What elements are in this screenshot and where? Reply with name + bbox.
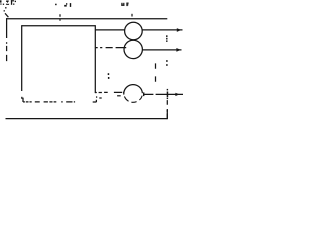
output wire 3	[143, 93, 183, 95]
colon dots x=108.5	[108, 73, 110, 79]
minus sign below wire	[117, 95, 121, 97]
label u1 (top centre)	[55, 3, 71, 7]
label ChF (top right)	[121, 3, 128, 7]
bottom bus line	[6, 118, 168, 120]
block box left edge	[21, 25, 23, 91]
mixer circle 1	[125, 22, 143, 40]
tick under label u1 crossing top line	[59, 14, 61, 20]
output wire 2	[142, 49, 181, 51]
dashed vertical x=155.5	[155, 63, 157, 81]
dotted vertical feedback line x=167	[166, 35, 168, 99]
mixer circle 3 dashed bottom arc	[124, 96, 142, 103]
wire dash-dot from box to mixer 2	[95, 47, 126, 49]
wire: left vertical dash-dot part	[6, 42, 8, 61]
block box top edge	[22, 25, 96, 27]
block box left lower dash	[21, 97, 23, 99]
block box bottom-right dashed corner	[93, 96, 102, 102]
leader dots from figure number to corner	[4, 7, 7, 11]
mixer circle 2	[124, 40, 142, 58]
wire dash-dot from box corner to mixer 3	[95, 91, 124, 93]
bottom-right corner up-turn	[166, 110, 168, 119]
figure number text fragment top-left	[0, 0, 16, 5]
mixer circle 3	[124, 85, 143, 95]
junction tick at mixer 3 output	[143, 92, 145, 96]
arrowhead output 2	[176, 48, 180, 52]
arrowhead output 3	[175, 93, 179, 96]
block box right edge	[94, 25, 96, 93]
wire from box to mixer 1	[95, 29, 125, 31]
wire: left vertical solid part	[6, 18, 8, 38]
output wire 1	[142, 29, 182, 31]
arrowhead output 1	[177, 28, 181, 32]
wire: top bus line	[6, 18, 167, 20]
block box bottom dashed edge	[23, 98, 75, 102]
tick under label ChF	[131, 14, 133, 17]
